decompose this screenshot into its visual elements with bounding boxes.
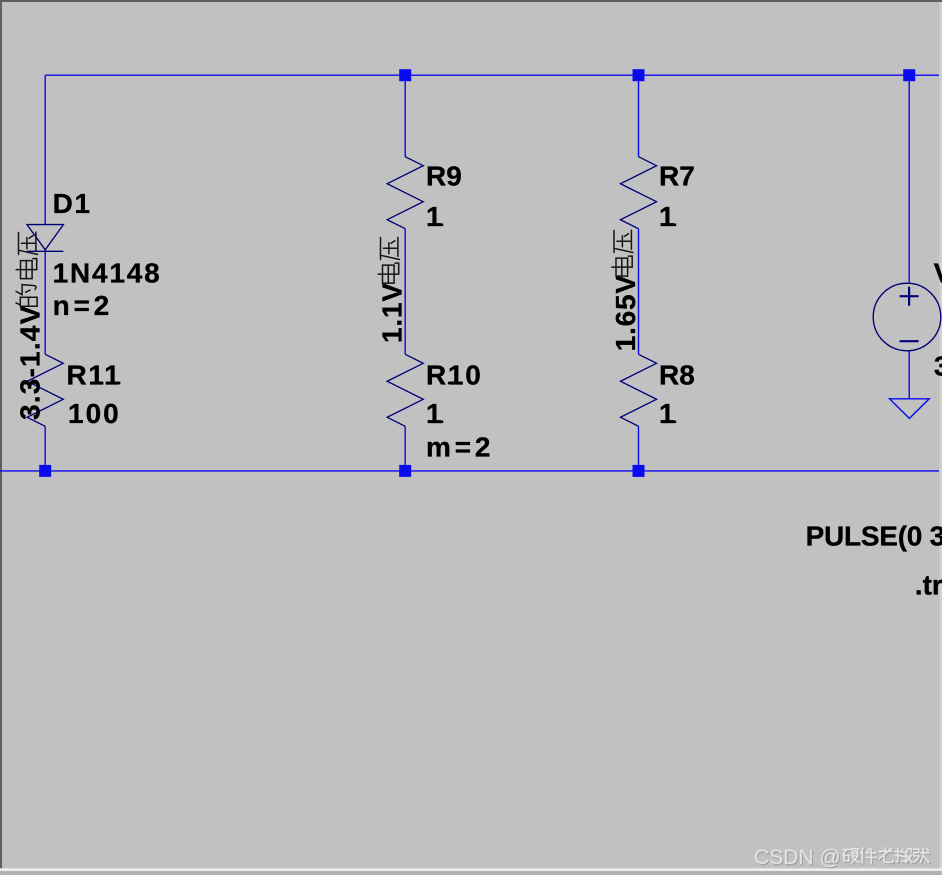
svg-text:PULSE(0 3.3 0 1u 1u 1m 2m): PULSE(0 3.3 0 1u 1u 1m 2m) <box>806 521 942 552</box>
svg-text:m=2: m=2 <box>426 432 494 463</box>
svg-text:1.65V: 1.65V <box>610 274 641 351</box>
svg-text:R7: R7 <box>659 161 695 192</box>
svg-text:n=2: n=2 <box>53 290 113 321</box>
svg-text:100: 100 <box>68 398 121 429</box>
svg-text:R9: R9 <box>426 161 462 192</box>
svg-text:1: 1 <box>659 201 675 232</box>
svg-text:1: 1 <box>659 398 675 429</box>
svg-text:R11: R11 <box>67 359 122 390</box>
svg-text:R8: R8 <box>659 359 695 390</box>
svg-text:1N4148: 1N4148 <box>53 258 162 289</box>
svg-text:1: 1 <box>426 398 442 429</box>
svg-text:3.3-1.4V: 3.3-1.4V <box>15 305 46 420</box>
svg-text:R10: R10 <box>426 359 482 390</box>
svg-text:.tran 5m: .tran 5m <box>915 570 942 601</box>
svg-text:CSDN @: CSDN @ <box>754 846 841 869</box>
svg-text:3.3: 3.3 <box>934 351 942 382</box>
svg-text:D1: D1 <box>53 188 92 219</box>
svg-text:V1: V1 <box>934 258 942 289</box>
svg-text:1: 1 <box>426 201 442 232</box>
svg-text:1.1V: 1.1V <box>377 282 408 343</box>
